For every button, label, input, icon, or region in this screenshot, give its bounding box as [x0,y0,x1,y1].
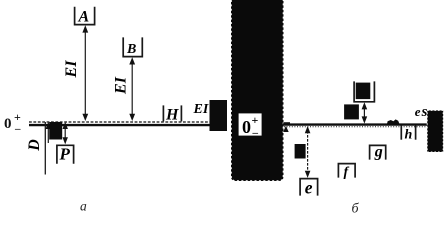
svg-text:а: а [80,199,87,214]
wire short dash above line start [284,122,291,124]
svg-text:P: P [59,145,71,164]
node upper cup with black square (fig b) [354,81,374,101]
node h cup hanging below line [400,126,402,140]
capacitor black square below line (fig b left) [295,144,306,159]
svg-text:A: A [78,9,90,26]
svg-text:h: h [405,128,413,143]
node H cup on line [162,105,164,121]
node g cup (open bottom) [370,145,386,159]
svg-text:0: 0 [4,116,12,132]
node ink smudge on line [387,119,400,124]
svg-text:g: g [374,144,383,161]
capacitor black square above line (fig b) [344,104,359,119]
svg-text:H: H [165,107,179,124]
wire D line down [44,122,46,175]
svg-text:–: – [252,127,259,139]
svg-text:EI: EI [63,60,80,79]
node P cup (open bottom) [57,145,74,164]
wire axis solid (fig b) [283,123,427,125]
node f cup (open bottom) [338,164,355,178]
svg-text:б: б [352,202,360,217]
node e cup (open bottom) [300,179,318,196]
svg-text:D: D [26,139,43,152]
svg-text:0: 0 [242,117,251,137]
wire double arrow to e cup [307,131,309,173]
svg-text:+: + [252,113,259,127]
wire double arrow to P cup [64,127,66,139]
svg-text:s: s [421,104,428,120]
svg-text:B: B [126,42,136,57]
wire small up arrow left of black square [47,127,49,143]
node 0 origin label left [4,110,21,135]
wire small up arrow at line start [283,126,289,132]
node B cup [123,37,142,56]
wire axis solid (fig a) [29,124,211,126]
wire arrow A (double headed) [84,31,86,116]
svg-text:EI: EI [112,76,129,95]
wire axis tick texture (fig b) [284,126,427,128]
node 0 origin label (fig b, white box) [239,113,262,135]
node A cup [75,7,95,25]
capacitor black square below origin [49,122,62,140]
svg-text:e: e [305,178,313,198]
svg-text:e: e [415,104,421,119]
resistor black block right end [427,110,443,152]
wire axis dashed (fig a) [29,121,211,123]
wire arrow B (double headed) [131,62,133,116]
svg-text:+: + [14,110,21,124]
resistor black block right of fig a [210,100,228,131]
svg-text:EI: EI [193,102,209,117]
svg-text:–: – [14,123,21,135]
wire double arrow cup to line [363,107,365,119]
